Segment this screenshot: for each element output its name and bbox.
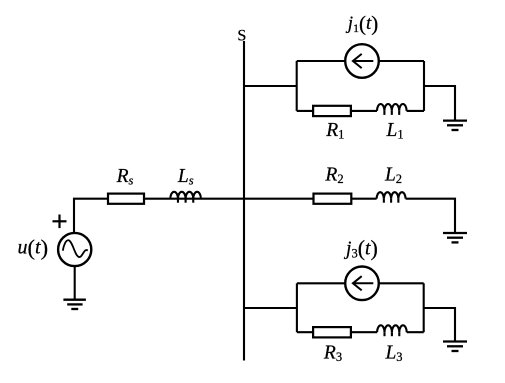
wire (main horizontal from source corner to bus and on to R2) — [74, 199, 314, 233]
wire (bottom box top side left of J3) — [297, 282, 345, 284]
wire (bottom box to bottom ground) — [424, 308, 455, 341]
wire (source bottom to ground) — [74, 266, 76, 300]
ground (middle right) — [443, 233, 467, 242]
bus s (vertical bus line) — [243, 41, 245, 361]
inductor L3 — [377, 325, 407, 336]
resistor R1 — [313, 106, 351, 116]
wire (bottom box bottom side left) — [297, 331, 313, 333]
wire (R2 to L2) — [351, 198, 376, 200]
wire (L1 to top box right corner) — [407, 110, 424, 112]
svg-text:s: s — [237, 21, 246, 46]
wire (top box left vertical) — [296, 61, 298, 111]
wire (bottom box top side right of J3) — [379, 282, 424, 284]
svg-text:u(t): u(t) — [18, 235, 49, 260]
wire (L2 to middle ground) — [406, 199, 455, 233]
voltage source u(t) — [58, 233, 91, 266]
svg-text:R1: R1 — [325, 120, 344, 142]
current source J3 — [345, 267, 379, 301]
inductor L2 — [377, 192, 406, 203]
wire (top box bottom side left) — [297, 110, 313, 112]
ground (top right) — [443, 121, 467, 130]
ground (below source) — [63, 300, 86, 309]
resistor R2 — [314, 194, 352, 204]
wire (R3 to L3) — [351, 331, 377, 333]
svg-text:R3: R3 — [323, 343, 342, 365]
wire (bus to top box feed) — [244, 85, 297, 87]
svg-text:j3(t): j3(t) — [343, 236, 378, 261]
wire (bottom box right vertical) — [423, 283, 425, 332]
wire (top box top side left of J1) — [297, 60, 346, 62]
svg-text:R2: R2 — [324, 164, 343, 186]
inductor Ls — [170, 192, 201, 203]
svg-text:L1: L1 — [386, 120, 404, 142]
wire (R1 to L1) — [351, 110, 377, 112]
inductor L1 — [377, 104, 407, 115]
resistor Rs — [108, 194, 144, 204]
wire (top box top side right of J1) — [379, 60, 424, 62]
svg-text:L2: L2 — [384, 164, 402, 186]
ground (bottom right) — [443, 342, 467, 352]
current source J1 — [345, 44, 379, 78]
wire (top box right vertical) — [423, 61, 425, 111]
svg-text:Rs: Rs — [116, 166, 134, 188]
polarity plus sign — [53, 215, 67, 229]
wire (top box to top ground) — [424, 86, 455, 121]
svg-text:L3: L3 — [384, 343, 402, 365]
wire (bottom box left vertical) — [296, 283, 298, 332]
svg-text:Ls: Ls — [177, 166, 194, 188]
svg-text:j1(t): j1(t) — [345, 11, 379, 35]
wire (bus to bottom box feed) — [244, 307, 297, 309]
resistor R3 — [313, 327, 351, 337]
wire (L3 to bottom box right corner) — [407, 331, 424, 333]
